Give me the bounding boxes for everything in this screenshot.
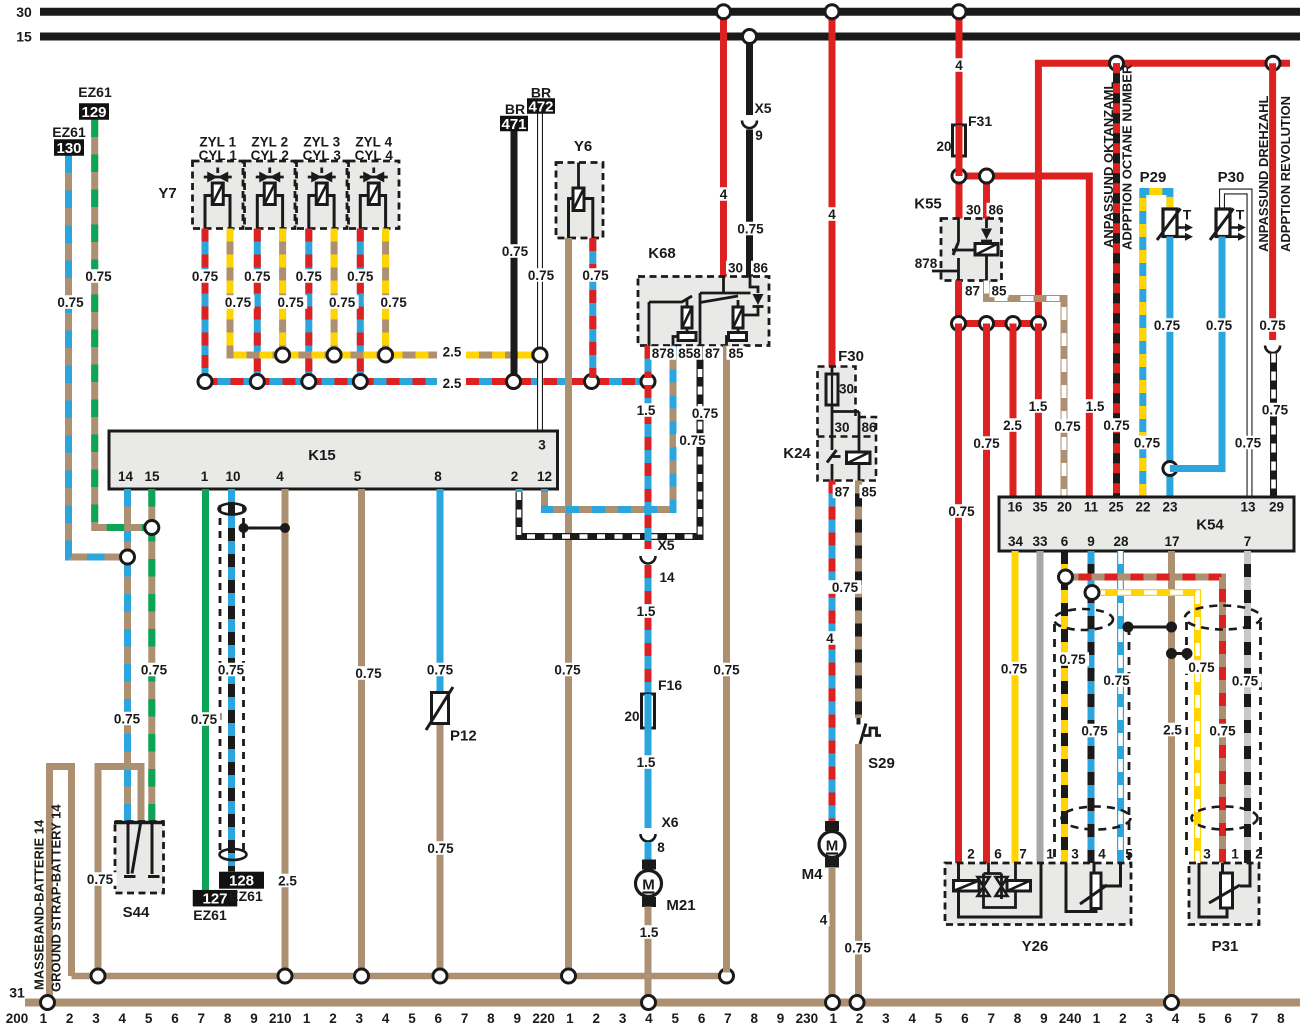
svg-text:0.75: 0.75 (191, 712, 218, 727)
svg-text:33: 33 (1032, 534, 1048, 549)
svg-text:240: 240 (1059, 1011, 1082, 1026)
svg-text:4: 4 (276, 469, 284, 484)
svg-text:7: 7 (1251, 1011, 1259, 1026)
svg-text:0.75: 0.75 (1209, 723, 1236, 738)
svg-text:34: 34 (1008, 534, 1024, 549)
svg-text:2: 2 (967, 847, 975, 862)
svg-text:EZ61: EZ61 (229, 888, 263, 904)
svg-text:0.75: 0.75 (1134, 435, 1161, 450)
svg-text:0.75: 0.75 (713, 662, 740, 677)
svg-text:30: 30 (966, 202, 981, 217)
svg-text:4: 4 (119, 1011, 127, 1026)
svg-text:2.5: 2.5 (278, 873, 297, 888)
svg-text:BR: BR (505, 101, 525, 117)
svg-text:1.5: 1.5 (637, 403, 656, 418)
svg-text:0.75: 0.75 (1154, 318, 1181, 333)
svg-text:X6: X6 (661, 814, 678, 830)
svg-text:K55: K55 (914, 196, 942, 213)
svg-text:12: 12 (537, 469, 552, 484)
svg-text:15: 15 (16, 29, 32, 45)
svg-text:0.75: 0.75 (57, 295, 84, 310)
svg-text:F30: F30 (838, 348, 864, 365)
svg-text:1: 1 (566, 1011, 574, 1026)
svg-text:0.75: 0.75 (225, 295, 252, 310)
svg-text:0.75: 0.75 (218, 662, 245, 677)
svg-text:9: 9 (250, 1011, 258, 1026)
svg-text:35: 35 (1032, 500, 1048, 515)
svg-text:S29: S29 (868, 755, 895, 772)
svg-text:3: 3 (1145, 1011, 1153, 1026)
svg-text:K54: K54 (1196, 517, 1224, 534)
svg-text:0.75: 0.75 (347, 269, 374, 284)
svg-text:8: 8 (657, 840, 665, 855)
svg-text:5: 5 (145, 1011, 153, 1026)
svg-text:87: 87 (965, 283, 980, 298)
svg-text:85: 85 (728, 346, 744, 361)
svg-text:86: 86 (988, 202, 1004, 217)
svg-text:0.75: 0.75 (355, 666, 382, 681)
svg-text:20: 20 (624, 709, 639, 724)
svg-text:0.75: 0.75 (1232, 673, 1259, 688)
svg-text:30: 30 (728, 260, 743, 275)
svg-text:85: 85 (861, 484, 877, 499)
svg-text:858: 858 (678, 346, 701, 361)
svg-text:8: 8 (750, 1011, 758, 1026)
svg-text:0.75: 0.75 (832, 580, 859, 595)
svg-text:5: 5 (354, 469, 362, 484)
svg-text:30: 30 (839, 382, 854, 397)
svg-text:3: 3 (1203, 847, 1211, 862)
svg-text:0.75: 0.75 (1054, 419, 1081, 434)
svg-text:20: 20 (936, 139, 951, 154)
svg-text:6: 6 (435, 1011, 443, 1026)
svg-text:MASSEBAND-BATTERIE 14: MASSEBAND-BATTERIE 14 (32, 819, 47, 990)
svg-text:K68: K68 (648, 245, 676, 262)
svg-text:CYL 3: CYL 3 (303, 148, 342, 163)
svg-text:2: 2 (66, 1011, 74, 1026)
svg-text:878: 878 (915, 256, 938, 271)
svg-text:0.75: 0.75 (1103, 673, 1130, 688)
svg-text:1.5: 1.5 (640, 925, 659, 940)
svg-text:9: 9 (1040, 1011, 1048, 1026)
svg-text:ANPASSUND OKTANZAML: ANPASSUND OKTANZAML (1101, 82, 1116, 248)
svg-text:0.75: 0.75 (296, 269, 323, 284)
svg-text:Y26: Y26 (1022, 938, 1049, 955)
svg-text:10: 10 (225, 469, 240, 484)
svg-text:4: 4 (955, 58, 963, 73)
svg-text:11: 11 (1084, 500, 1099, 515)
svg-text:GROUND STRAP-BATTERY 14: GROUND STRAP-BATTERY 14 (49, 804, 64, 992)
svg-text:F31: F31 (968, 113, 992, 129)
svg-text:4: 4 (645, 1011, 653, 1026)
svg-text:14: 14 (659, 570, 675, 585)
svg-text:CYL 2: CYL 2 (251, 148, 289, 163)
svg-text:6: 6 (994, 847, 1002, 862)
svg-text:0.75: 0.75 (502, 244, 529, 259)
svg-text:3: 3 (1071, 847, 1079, 862)
svg-text:85: 85 (991, 283, 1007, 298)
svg-text:2: 2 (511, 469, 519, 484)
svg-text:5: 5 (1198, 1011, 1206, 1026)
svg-text:1: 1 (303, 1011, 311, 1026)
svg-text:4: 4 (820, 912, 828, 927)
svg-text:6: 6 (171, 1011, 179, 1026)
svg-text:14: 14 (118, 469, 134, 484)
svg-text:5: 5 (408, 1011, 416, 1026)
svg-text:4: 4 (382, 1011, 390, 1026)
svg-text:1: 1 (201, 469, 209, 484)
svg-text:9: 9 (755, 128, 763, 143)
svg-text:1.5: 1.5 (637, 755, 656, 770)
svg-text:2: 2 (856, 1011, 864, 1026)
svg-text:7: 7 (1244, 534, 1252, 549)
svg-text:0.75: 0.75 (85, 269, 112, 284)
svg-text:20: 20 (1057, 500, 1072, 515)
svg-text:X5: X5 (754, 100, 771, 116)
svg-text:8: 8 (1277, 1011, 1285, 1026)
svg-text:2: 2 (593, 1011, 601, 1026)
svg-text:29: 29 (1269, 500, 1284, 515)
svg-text:16: 16 (1007, 500, 1023, 515)
svg-text:472: 472 (528, 98, 553, 115)
svg-text:220: 220 (532, 1011, 555, 1026)
svg-text:0.75: 0.75 (244, 269, 271, 284)
svg-text:878: 878 (652, 346, 675, 361)
svg-text:0.75: 0.75 (1235, 435, 1262, 450)
svg-text:0.75: 0.75 (845, 940, 872, 955)
svg-text:T: T (1236, 207, 1245, 223)
svg-text:4: 4 (908, 1011, 916, 1026)
svg-text:Y6: Y6 (574, 138, 592, 155)
svg-text:200: 200 (6, 1011, 29, 1026)
svg-text:0.75: 0.75 (1262, 402, 1289, 417)
svg-text:86: 86 (753, 260, 769, 275)
svg-text:0.75: 0.75 (141, 662, 168, 677)
svg-text:2.5: 2.5 (443, 344, 462, 359)
svg-text:0.75: 0.75 (1259, 318, 1286, 333)
svg-text:7: 7 (987, 1011, 995, 1026)
svg-text:2.5: 2.5 (1003, 418, 1022, 433)
svg-text:CYL 4: CYL 4 (355, 148, 394, 163)
svg-text:9: 9 (777, 1011, 785, 1026)
svg-text:130: 130 (56, 140, 81, 157)
svg-text:0.75: 0.75 (87, 872, 114, 887)
svg-text:2.5: 2.5 (1163, 722, 1182, 737)
svg-text:X5: X5 (657, 537, 674, 553)
svg-text:6: 6 (698, 1011, 706, 1026)
svg-text:0.75: 0.75 (1206, 318, 1233, 333)
svg-text:7: 7 (1019, 847, 1027, 862)
svg-text:129: 129 (81, 104, 106, 121)
svg-text:0.75: 0.75 (1103, 418, 1130, 433)
svg-text:28: 28 (1113, 534, 1129, 549)
svg-text:1.5: 1.5 (1029, 399, 1048, 414)
svg-text:25: 25 (1108, 500, 1124, 515)
svg-text:0.75: 0.75 (380, 295, 407, 310)
svg-text:M4: M4 (802, 866, 823, 883)
svg-text:ADPPTION OCTANE NUMBER: ADPPTION OCTANE NUMBER (1120, 64, 1135, 250)
svg-text:0.75: 0.75 (1059, 652, 1086, 667)
svg-text:M: M (642, 877, 655, 894)
svg-text:8: 8 (1014, 1011, 1022, 1026)
svg-text:4: 4 (826, 631, 834, 646)
svg-text:0.75: 0.75 (1081, 723, 1108, 738)
svg-text:6: 6 (961, 1011, 969, 1026)
svg-text:0.75: 0.75 (427, 662, 454, 677)
svg-text:M21: M21 (666, 897, 695, 914)
svg-text:2.5: 2.5 (443, 376, 462, 391)
svg-text:15: 15 (144, 469, 160, 484)
svg-text:M: M (826, 838, 839, 855)
svg-text:1.5: 1.5 (1086, 399, 1105, 414)
svg-text:EZ61: EZ61 (193, 907, 227, 923)
svg-text:1: 1 (829, 1011, 837, 1026)
svg-text:ADPPTION REVOLUTION: ADPPTION REVOLUTION (1278, 96, 1293, 252)
svg-text:3: 3 (619, 1011, 627, 1026)
svg-text:EZ61: EZ61 (52, 124, 86, 140)
svg-text:3: 3 (882, 1011, 890, 1026)
svg-text:5: 5 (671, 1011, 679, 1026)
svg-text:9: 9 (514, 1011, 522, 1026)
svg-text:86: 86 (861, 420, 877, 435)
svg-text:1: 1 (1231, 847, 1239, 862)
svg-text:2: 2 (329, 1011, 337, 1026)
svg-text:210: 210 (269, 1011, 292, 1026)
svg-text:1: 1 (1093, 1011, 1101, 1026)
svg-text:0.75: 0.75 (427, 841, 454, 856)
svg-text:230: 230 (796, 1011, 819, 1026)
svg-text:30: 30 (834, 420, 849, 435)
svg-text:0.75: 0.75 (692, 406, 719, 421)
svg-text:471: 471 (501, 116, 526, 133)
svg-text:P29: P29 (1140, 169, 1167, 186)
svg-text:31: 31 (9, 985, 25, 1001)
svg-text:7: 7 (461, 1011, 469, 1026)
svg-text:0.75: 0.75 (737, 221, 764, 236)
svg-text:ANPASSUND DREHZAHL: ANPASSUND DREHZAHL (1256, 95, 1271, 252)
svg-text:6: 6 (1224, 1011, 1232, 1026)
svg-text:4: 4 (828, 207, 836, 222)
svg-text:0.75: 0.75 (582, 268, 609, 283)
svg-text:87: 87 (705, 346, 720, 361)
svg-text:P31: P31 (1212, 938, 1239, 955)
svg-text:1.5: 1.5 (637, 604, 656, 619)
svg-text:22: 22 (1135, 500, 1150, 515)
svg-text:0.75: 0.75 (277, 295, 304, 310)
svg-text:23: 23 (1162, 500, 1178, 515)
svg-text:2: 2 (1255, 847, 1263, 862)
svg-text:17: 17 (1164, 534, 1179, 549)
svg-text:6: 6 (1061, 534, 1069, 549)
svg-text:4: 4 (720, 187, 728, 202)
svg-text:5: 5 (1125, 847, 1133, 862)
svg-text:0.75: 0.75 (948, 504, 975, 519)
svg-text:4: 4 (1098, 847, 1106, 862)
svg-text:127: 127 (202, 891, 227, 908)
svg-text:K24: K24 (783, 445, 811, 462)
svg-text:30: 30 (16, 4, 32, 20)
svg-text:T: T (1183, 207, 1192, 223)
svg-text:Y7: Y7 (158, 185, 176, 202)
svg-text:EZ61: EZ61 (78, 84, 112, 100)
svg-text:0.75: 0.75 (1001, 661, 1028, 676)
svg-text:0.75: 0.75 (528, 268, 555, 283)
svg-text:9: 9 (1087, 534, 1095, 549)
svg-text:7: 7 (724, 1011, 732, 1026)
svg-text:CYL 1: CYL 1 (199, 148, 238, 163)
svg-text:8: 8 (224, 1011, 232, 1026)
svg-text:0.75: 0.75 (114, 711, 141, 726)
svg-text:F16: F16 (658, 677, 682, 693)
svg-text:0.75: 0.75 (192, 269, 219, 284)
svg-text:87: 87 (835, 484, 850, 499)
svg-text:3: 3 (92, 1011, 100, 1026)
svg-text:P30: P30 (1218, 169, 1245, 186)
svg-text:1: 1 (1046, 847, 1054, 862)
svg-text:8: 8 (487, 1011, 495, 1026)
svg-text:13: 13 (1240, 500, 1256, 515)
svg-text:4: 4 (1172, 1011, 1180, 1026)
svg-text:5: 5 (935, 1011, 943, 1026)
svg-text:0.75: 0.75 (554, 662, 581, 677)
svg-text:0.75: 0.75 (329, 295, 356, 310)
svg-text:0.75: 0.75 (1188, 660, 1215, 675)
svg-text:K15: K15 (308, 447, 336, 464)
svg-text:0.75: 0.75 (973, 436, 1000, 451)
svg-text:3: 3 (356, 1011, 364, 1026)
svg-text:2: 2 (1119, 1011, 1127, 1026)
svg-text:P12: P12 (450, 728, 477, 745)
svg-text:1: 1 (40, 1011, 48, 1026)
svg-text:7: 7 (198, 1011, 206, 1026)
svg-text:S44: S44 (123, 904, 150, 921)
svg-text:3: 3 (538, 438, 546, 453)
svg-text:0.75: 0.75 (679, 433, 706, 448)
svg-text:8: 8 (434, 469, 442, 484)
